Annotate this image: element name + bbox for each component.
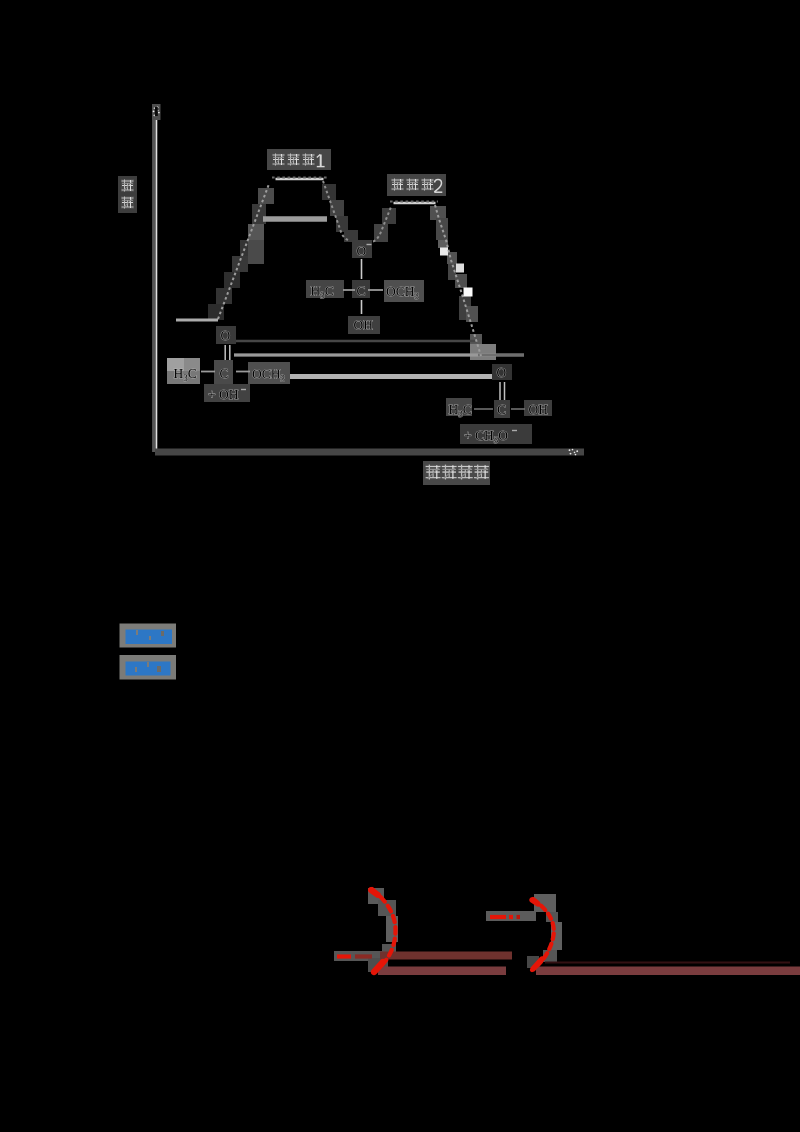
svg-text:O: O: [357, 244, 367, 259]
svg-text:O: O: [221, 328, 231, 343]
svg-text:C: C: [220, 366, 229, 381]
svg-text:C: C: [357, 284, 366, 299]
bar under peak1: [263, 216, 327, 222]
bright red dashes mid: [490, 915, 513, 919]
svg-text:OCH3: OCH3: [252, 367, 286, 384]
red arc 2: [532, 899, 554, 970]
svg-text:O: O: [497, 365, 507, 380]
level line 2 (light): [234, 353, 524, 356]
label box 过渡态2: [387, 174, 446, 196]
plateau bright lines: [276, 178, 324, 180]
left reactant level line: [176, 319, 218, 322]
x label 反应进程: [423, 461, 490, 485]
gray blocks along descent 2: [430, 206, 496, 360]
svg-text:+ OH: + OH: [208, 387, 239, 402]
svg-text:OCH3: OCH3: [386, 284, 420, 301]
white jpeg blocks: [440, 248, 448, 256]
label box 过渡态1: [267, 149, 331, 170]
svg-text:+ CH3O: + CH3O: [464, 428, 508, 445]
dashed curve: [218, 178, 481, 357]
level line 1 (dark): [234, 340, 477, 342]
y-axis: [152, 106, 155, 452]
x-axis: [155, 449, 584, 456]
svg-text:C: C: [497, 402, 506, 417]
gray jpeg blocks along curve ascent 1: [208, 184, 396, 320]
dark red bands: [380, 952, 512, 960]
y label 能量: [118, 176, 137, 213]
level line 3: [290, 374, 496, 379]
bright red dashes left: [337, 954, 351, 958]
red arc 1: [372, 889, 395, 973]
svg-text:OH: OH: [529, 402, 549, 417]
gray blocks behind red: [334, 888, 562, 972]
y-axis arrow: [152, 104, 161, 120]
svg-text:OH: OH: [354, 318, 374, 333]
